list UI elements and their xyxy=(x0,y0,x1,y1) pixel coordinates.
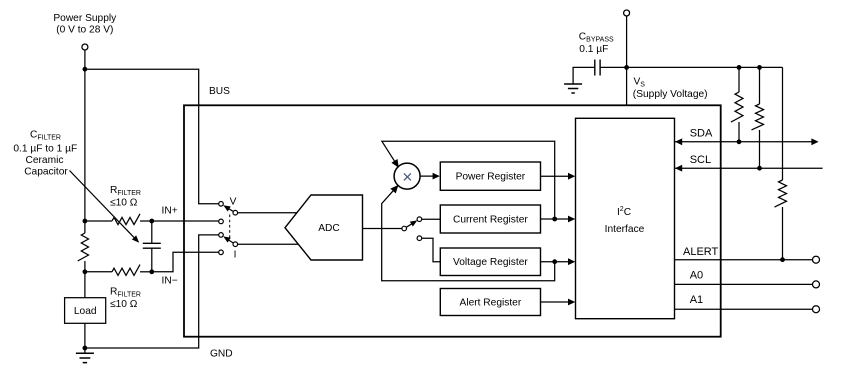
node K (ALERT pullup) xyxy=(780,257,785,262)
wire: Vs rail xyxy=(600,66,782,68)
wire: S1 pole to ADC xyxy=(238,212,298,214)
svg-text:Voltage Register: Voltage Register xyxy=(453,257,528,268)
Voltage Register box xyxy=(440,248,540,276)
resistor R_FILTER (bottom) xyxy=(112,265,140,276)
output switch throw: current xyxy=(417,217,422,222)
node A (supply junction) xyxy=(83,67,88,72)
svg-text:SCL: SCL xyxy=(690,154,711,166)
output switch pole circle xyxy=(402,226,407,231)
gang dashed link xyxy=(229,215,231,242)
capacitor C_BYPASS xyxy=(595,60,600,76)
wire A1 xyxy=(675,308,813,310)
wire: supply to BUS pin xyxy=(85,69,219,204)
resistor: SCL pullup xyxy=(759,67,761,104)
wire: Current Register output xyxy=(541,218,573,220)
svg-text:≤10 Ω: ≤10 Ω xyxy=(110,299,138,310)
switch S1 pole circle xyxy=(233,210,238,215)
Alert Register box xyxy=(440,289,540,316)
node B (top of shunt) xyxy=(83,219,88,224)
svg-text:0.1 µF: 0.1 µF xyxy=(579,44,608,55)
node H (voltage feedback tap) xyxy=(552,259,557,264)
wire: throw to Current Register xyxy=(422,218,441,220)
wire: Voltage Register output xyxy=(541,261,573,263)
wire: Vs terminal down to pin xyxy=(626,16,628,105)
svg-text:IN−: IN− xyxy=(162,276,178,287)
svg-text:(0 V to 28 V): (0 V to 28 V) xyxy=(56,25,113,36)
node N (SCL pullup top) xyxy=(757,65,762,70)
svg-text:A0: A0 xyxy=(690,270,703,282)
node F (ground junction) xyxy=(83,346,88,351)
I2C interface box U4 xyxy=(576,118,675,318)
pointer arrow from Capacitor label to C_FILTER xyxy=(70,171,136,239)
node G (current feedback tap) xyxy=(552,217,557,222)
wire: voltage feedback to multiplier xyxy=(382,186,555,281)
terminal A1 xyxy=(813,306,820,313)
resistor: ALERT pullup xyxy=(782,67,784,180)
wire: ADC output xyxy=(363,228,403,230)
terminal: power supply input xyxy=(82,44,88,50)
wire: ground to GND pin xyxy=(85,235,219,348)
svg-text:≤10 Ω: ≤10 Ω xyxy=(110,198,138,209)
ground symbol (bypass) xyxy=(564,84,582,93)
switch S2 pole circle xyxy=(233,242,238,247)
shunt resistor (vertical, across load supply) xyxy=(84,221,86,233)
svg-text:Alert Register: Alert Register xyxy=(460,298,522,309)
svg-text:RFILTER: RFILTER xyxy=(110,185,141,197)
svg-text:(Supply Voltage): (Supply Voltage) xyxy=(633,89,708,100)
wire ALERT xyxy=(675,259,813,261)
wire: S2 pole to ADC xyxy=(238,243,299,245)
wire: Alert Register output xyxy=(541,301,573,303)
svg-text:ADC: ADC xyxy=(318,223,340,234)
node E (IN- / C_FILTER bottom) xyxy=(149,269,154,274)
svg-text:0.1 µF to 1 µF: 0.1 µF to 1 µF xyxy=(13,144,77,155)
node D (bottom of shunt) xyxy=(83,269,88,274)
switch S1 lever (V) xyxy=(226,207,234,212)
svg-text:CBYPASS: CBYPASS xyxy=(579,32,614,44)
switch throw circle: BUS (V) xyxy=(219,202,224,207)
svg-text:Load: Load xyxy=(74,306,97,317)
wire: R_FILTER top to node C xyxy=(140,220,152,222)
resistor R_FILTER (top) xyxy=(112,214,140,225)
svg-text:A1: A1 xyxy=(690,294,703,306)
wire A0 xyxy=(675,283,813,285)
svg-text:ALERT: ALERT xyxy=(683,246,719,258)
svg-text:I2C: I2C xyxy=(617,206,631,218)
terminal ALERT xyxy=(813,256,820,263)
svg-text:Ceramic: Ceramic xyxy=(26,155,64,166)
svg-text:Current Register: Current Register xyxy=(453,214,528,225)
svg-text:SDA: SDA xyxy=(690,127,713,139)
wire: throw to Voltage Register xyxy=(422,238,441,262)
wire: to R_FILTER bottom xyxy=(85,271,112,273)
wire: to R_FILTER top xyxy=(85,220,112,222)
svg-text:Interface: Interface xyxy=(605,224,645,235)
node J (SCL pullup) xyxy=(757,166,762,171)
terminal A0 xyxy=(813,281,820,288)
wire: node D to load xyxy=(84,272,86,298)
wire: load to ground node xyxy=(84,323,86,348)
svg-text:BUS: BUS xyxy=(209,86,230,97)
multiplier U3 xyxy=(394,163,420,189)
Power Register box xyxy=(440,162,540,190)
svg-text:CFILTER: CFILTER xyxy=(30,130,61,142)
wire: supply rail down xyxy=(84,69,86,221)
svg-text:V: V xyxy=(230,197,237,208)
capacitor C_FILTER xyxy=(151,221,153,243)
wire: current feedback to multiplier xyxy=(382,141,555,219)
switch S2 lever (I) xyxy=(226,238,234,243)
wire: R_FILTER bottom to node E xyxy=(140,271,152,273)
svg-text:GND: GND xyxy=(210,349,233,360)
svg-text:RFILTER: RFILTER xyxy=(110,287,141,299)
wire: cap to ground xyxy=(573,67,595,84)
wire: Power Register output xyxy=(541,175,573,177)
svg-text:VS: VS xyxy=(634,77,646,89)
output switch lever xyxy=(406,223,414,228)
load box xyxy=(65,298,106,324)
wire IN- : node E right, up, to switch throw xyxy=(152,252,219,271)
IC boundary box U1 xyxy=(184,105,721,336)
wire: multiplier to Power Register (arrow) xyxy=(420,175,437,177)
node C (IN+ / C_FILTER top) xyxy=(149,219,154,224)
wire IN+ : node C to switch throw xyxy=(152,220,219,222)
svg-text:Capacitor: Capacitor xyxy=(24,166,68,177)
svg-text:Power Supply: Power Supply xyxy=(53,13,117,24)
switch throw circle: IN- xyxy=(219,250,224,255)
svg-text:I: I xyxy=(234,250,237,261)
switch throw circle: IN+ xyxy=(219,219,224,224)
switch throw circle: GND xyxy=(219,233,224,238)
wire SCL xyxy=(675,167,823,169)
wire SDA (bidirectional) xyxy=(675,141,813,143)
resistor: SDA pullup xyxy=(738,67,740,92)
wire: supply terminal to node A xyxy=(84,50,86,69)
terminal Vs supply xyxy=(624,10,630,16)
output switch throw: voltage xyxy=(417,236,422,241)
svg-text:Power Register: Power Register xyxy=(456,172,526,183)
Current Register box xyxy=(440,205,540,233)
ADC U2 xyxy=(285,195,363,260)
ground symbol (load) xyxy=(84,348,86,353)
svg-text:IN+: IN+ xyxy=(162,206,178,217)
node I (SDA pullup) xyxy=(737,139,742,144)
node M (SDA pullup top) xyxy=(737,65,742,70)
node L (Vs junction) xyxy=(624,65,629,70)
